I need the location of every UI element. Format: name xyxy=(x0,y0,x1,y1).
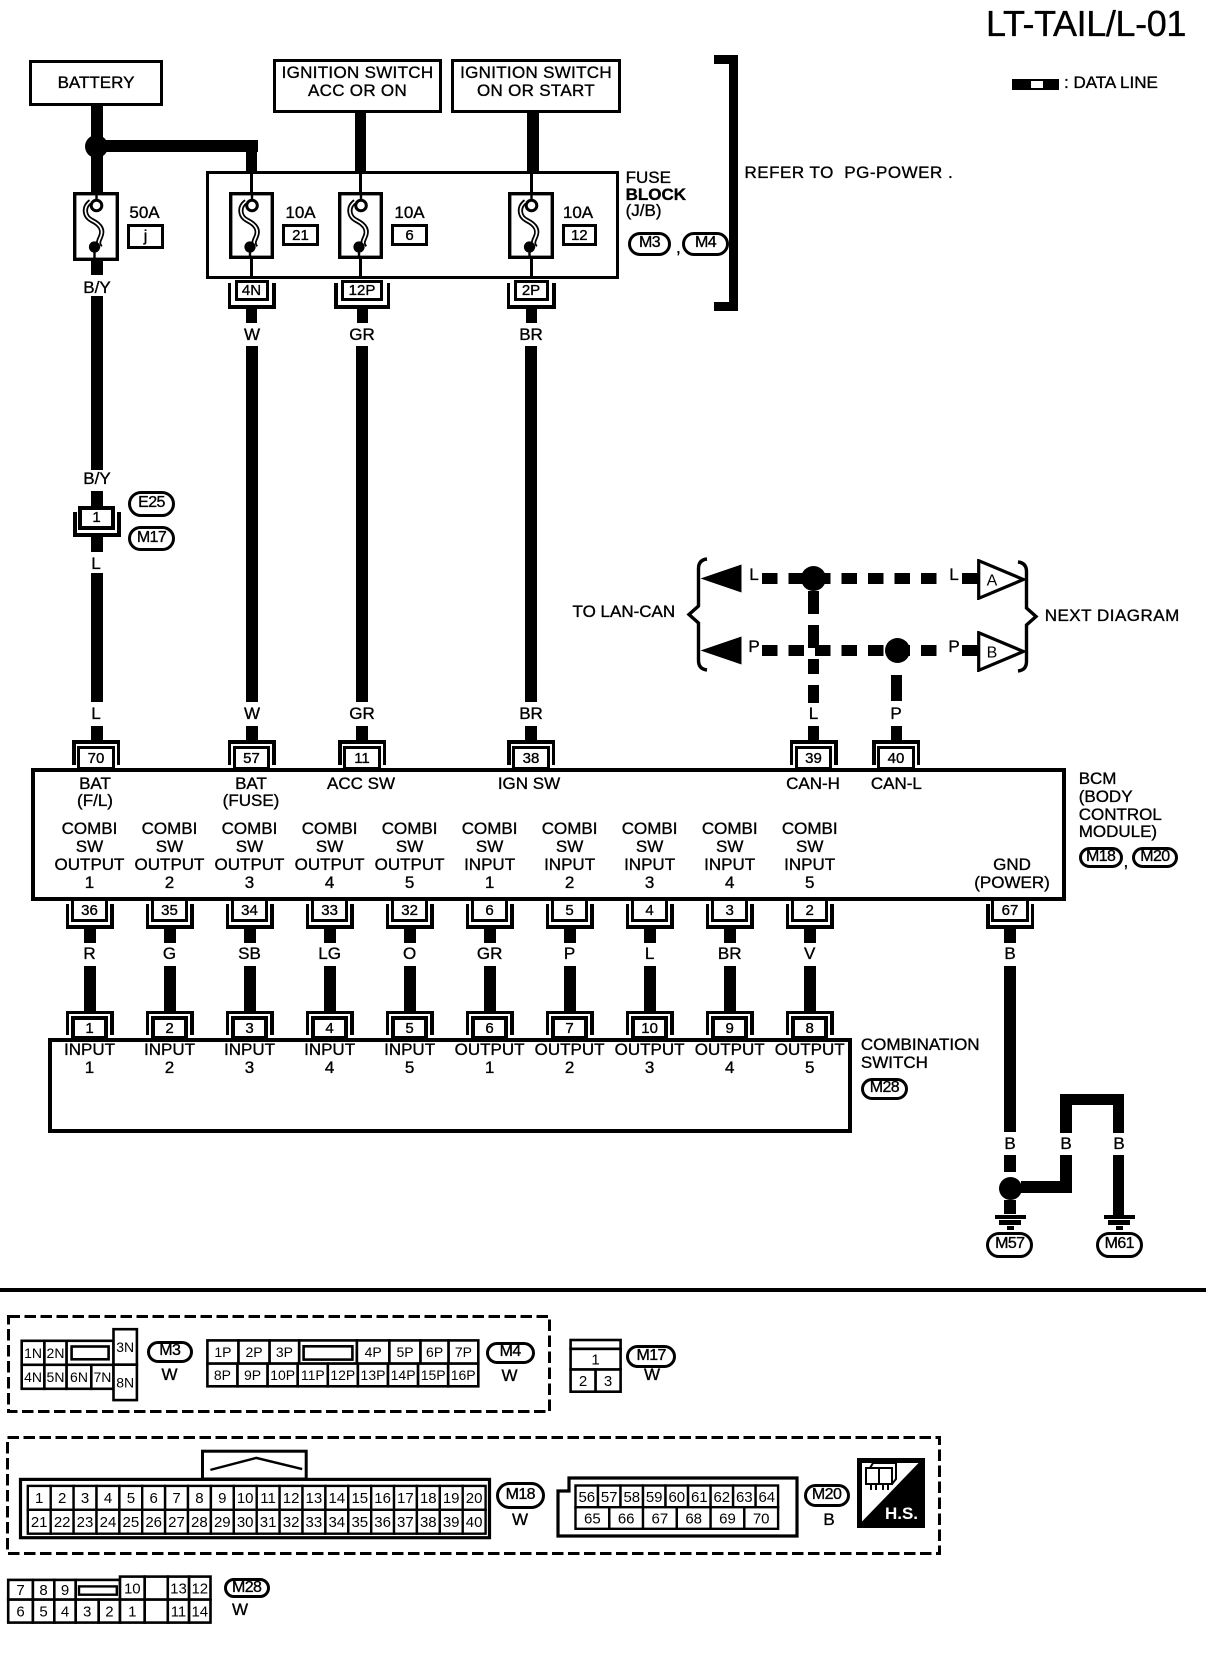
comb switch label INPUT 5 xyxy=(384,1041,435,1077)
wire top bar xyxy=(1060,1094,1124,1106)
svg-text:4: 4 xyxy=(104,1490,112,1507)
svg-text:26: 26 xyxy=(145,1514,162,1531)
ground M61 symbol xyxy=(1104,1215,1135,1219)
comb switch label OUTPUT 4 xyxy=(695,1041,765,1077)
wire stub below pin 67 xyxy=(1004,929,1016,943)
svg-text:H.S.: H.S. xyxy=(885,1504,918,1523)
lead fuse2 top xyxy=(359,174,362,193)
svg-text:34: 34 xyxy=(328,1514,345,1531)
ground oval M57 xyxy=(986,1232,1033,1258)
svg-text:A: A xyxy=(987,573,998,590)
wire stub below dot xyxy=(1004,1200,1016,1214)
svg-text:4P: 4P xyxy=(365,1344,382,1360)
wire W xyxy=(246,346,258,702)
comb switch label OUTPUT 2 xyxy=(535,1041,605,1077)
BCM pin 67 xyxy=(991,898,1028,922)
svg-text:12P: 12P xyxy=(330,1367,355,1383)
wire stub below pin 32 xyxy=(404,929,416,943)
wire L xyxy=(644,966,656,1011)
stub before triangle A xyxy=(962,573,978,584)
wire GR xyxy=(356,346,368,702)
title LT-TAIL/L-01 xyxy=(986,5,1186,43)
BCM pin 3 xyxy=(711,898,748,922)
fuse block oval M3 xyxy=(628,232,671,256)
svg-text:13: 13 xyxy=(306,1490,323,1507)
fuse 10A 6 xyxy=(338,192,383,259)
wire stub below 4N xyxy=(246,309,257,323)
svg-text:5P: 5P xyxy=(396,1344,413,1360)
label LG xyxy=(318,945,341,963)
oval M18 pinout xyxy=(496,1482,545,1509)
label L left xyxy=(749,566,758,584)
connector pinout M20 xyxy=(556,1476,799,1538)
BCM pin 11 xyxy=(338,740,386,744)
svg-text:36: 36 xyxy=(374,1514,391,1531)
label B below pin 67 xyxy=(1004,945,1015,963)
svg-text:6P: 6P xyxy=(426,1344,443,1360)
svg-text:9: 9 xyxy=(61,1582,69,1599)
label W under M18 xyxy=(512,1511,528,1529)
comb switch label INPUT 3 xyxy=(224,1041,275,1077)
wire stub below pin 33 xyxy=(324,929,336,943)
dashed box BCM connectors xyxy=(4,1434,945,1556)
lead fuse1 top xyxy=(250,174,253,193)
inline connector 1 E25/M17 xyxy=(78,506,115,530)
svg-text:32: 32 xyxy=(283,1514,300,1531)
wire junction to fuse block xyxy=(96,140,258,152)
combination switch box xyxy=(48,1038,852,1133)
pin label IGN SW xyxy=(498,775,560,793)
svg-text:56: 56 xyxy=(578,1489,595,1506)
svg-text:2P: 2P xyxy=(245,1344,262,1360)
connector 4N xyxy=(235,280,269,301)
wire stub below pin 4 xyxy=(644,929,656,943)
svg-text:11: 11 xyxy=(260,1490,276,1507)
wire stub below pin 2 xyxy=(804,929,816,943)
pin label COMBI SW INPUT 2 xyxy=(542,820,598,892)
wire left leg upper xyxy=(1060,1105,1072,1133)
svg-text:6N: 6N xyxy=(70,1369,88,1385)
triangle A next diagram xyxy=(977,559,1026,600)
svg-text:28: 28 xyxy=(191,1514,208,1531)
comb switch oval M28 xyxy=(861,1078,908,1100)
svg-text:59: 59 xyxy=(646,1489,663,1506)
BCM pin 4 xyxy=(631,898,668,922)
fuse 50A j xyxy=(73,192,119,261)
wire stub below fuse 50A xyxy=(91,261,103,275)
data line CAN-H vertical xyxy=(808,591,819,614)
junction dot CAN-P-row xyxy=(885,638,910,663)
pin label COMBI SW INPUT 5 xyxy=(782,820,838,892)
wire V xyxy=(804,966,816,1011)
label B right xyxy=(1113,1135,1124,1153)
BCM pin 39 xyxy=(790,740,838,744)
svg-text:66: 66 xyxy=(618,1510,635,1527)
wire stub above pin 11 xyxy=(356,726,368,740)
label 10A fuse1 xyxy=(285,204,315,222)
fuse id box 12 xyxy=(562,224,597,246)
svg-text:70: 70 xyxy=(753,1510,770,1527)
junction dot battery xyxy=(85,135,108,158)
wire right leg upper xyxy=(1113,1105,1125,1133)
brace right next diagram xyxy=(1016,560,1039,673)
wire acc to fuse block xyxy=(355,113,366,172)
ground M57 symbol xyxy=(995,1215,1026,1219)
BCM pin 38 xyxy=(507,740,555,744)
svg-text:69: 69 xyxy=(719,1510,736,1527)
label P xyxy=(564,945,575,963)
data line P row xyxy=(762,645,946,656)
svg-text:15P: 15P xyxy=(421,1367,446,1383)
svg-text:3: 3 xyxy=(81,1490,89,1507)
svg-text:1: 1 xyxy=(35,1490,43,1507)
label 10A fuse2 xyxy=(394,204,424,222)
label W under M28 xyxy=(232,1601,248,1619)
arrow left P row xyxy=(700,636,742,665)
svg-text:64: 64 xyxy=(758,1489,775,1506)
label refer to pg-power xyxy=(745,164,954,182)
label next diagram xyxy=(1045,607,1180,625)
BCM pin 32 xyxy=(391,898,428,922)
wire R xyxy=(84,966,96,1011)
BCM pin 2 xyxy=(791,898,828,922)
combination switch pin 9 xyxy=(706,1011,754,1015)
svg-text:23: 23 xyxy=(77,1514,94,1531)
bracket refer to pg-power xyxy=(729,55,738,311)
wire stub below 12P xyxy=(357,309,368,323)
svg-text:10P: 10P xyxy=(270,1367,295,1383)
stub above pin 40 xyxy=(891,726,902,740)
wire BR xyxy=(724,966,736,1011)
pin label COMBI SW OUTPUT 2 xyxy=(135,820,205,892)
label GR xyxy=(477,945,503,963)
wire stub below 2P xyxy=(526,309,537,323)
wire stub above pin 57 xyxy=(246,726,258,740)
fuse block label xyxy=(626,170,686,219)
svg-text:2: 2 xyxy=(579,1373,587,1390)
pin label BAT (F/L) xyxy=(77,775,113,809)
fuse 10A 21 xyxy=(229,192,274,259)
separator line xyxy=(0,1288,1206,1292)
wire stub below pin 34 xyxy=(244,929,256,943)
svg-text:3N: 3N xyxy=(116,1339,134,1355)
BCM pin 34 xyxy=(231,898,268,922)
BCM box xyxy=(31,768,1066,901)
svg-text:6: 6 xyxy=(150,1490,158,1507)
pin label COMBI SW OUTPUT 4 xyxy=(295,820,365,892)
label W above pin 57 xyxy=(244,705,260,723)
oval M20 pinout xyxy=(804,1484,850,1507)
svg-text:1: 1 xyxy=(591,1352,599,1369)
wire LG xyxy=(324,966,336,1011)
connector pinout M3 xyxy=(19,1326,140,1403)
svg-text:2: 2 xyxy=(105,1604,113,1621)
data line CAN-L vertical xyxy=(891,675,902,701)
svg-text:10: 10 xyxy=(124,1581,141,1598)
svg-text:25: 25 xyxy=(123,1514,140,1531)
svg-text:4N: 4N xyxy=(24,1369,42,1385)
label L xyxy=(645,945,654,963)
svg-text:3: 3 xyxy=(604,1373,612,1390)
svg-text:62: 62 xyxy=(713,1489,730,1506)
connector 2P xyxy=(514,280,549,301)
combination switch pin 5 xyxy=(386,1011,434,1015)
arrow left L row xyxy=(700,564,742,593)
svg-text:8: 8 xyxy=(195,1490,203,1507)
pin label COMBI SW OUTPUT 5 xyxy=(375,820,445,892)
label BR xyxy=(718,945,742,963)
svg-text:13P: 13P xyxy=(361,1367,386,1383)
svg-text:1: 1 xyxy=(128,1604,136,1621)
wire ign to fuse block xyxy=(527,113,539,172)
dashed box fuse block connectors xyxy=(6,1314,554,1415)
data line legend bar xyxy=(1012,79,1059,91)
connector pinout M28 xyxy=(3,1574,218,1627)
svg-text:B: B xyxy=(987,645,998,662)
lead fuse3 top xyxy=(530,174,533,193)
oval M3 pinout xyxy=(147,1341,193,1363)
wire right leg lower xyxy=(1113,1155,1125,1216)
lead fuse2 bottom xyxy=(359,258,362,277)
connector 12P xyxy=(341,280,383,301)
svg-text:6: 6 xyxy=(16,1604,24,1621)
svg-text:57: 57 xyxy=(601,1489,618,1506)
label B/Y upper xyxy=(83,279,110,297)
svg-text:60: 60 xyxy=(668,1489,685,1506)
wire SB xyxy=(244,966,256,1011)
BCM pin 5 xyxy=(551,898,588,922)
svg-text:68: 68 xyxy=(685,1510,702,1527)
svg-text:61: 61 xyxy=(691,1489,708,1506)
BCM oval M18 xyxy=(1079,847,1123,868)
wire stub below pin 35 xyxy=(164,929,176,943)
wire B/Y xyxy=(91,296,103,470)
wire BR xyxy=(525,346,537,702)
combination switch name xyxy=(861,1036,980,1072)
combination switch pin 2 xyxy=(146,1011,194,1015)
label BR above pin 38 xyxy=(519,705,543,723)
fuse id box j xyxy=(127,224,164,249)
svg-text:1P: 1P xyxy=(214,1344,231,1360)
svg-text:29: 29 xyxy=(214,1514,231,1531)
svg-text:14: 14 xyxy=(191,1604,208,1621)
lead fuse1 bottom xyxy=(250,258,253,277)
BCM pin 36 xyxy=(71,898,108,922)
lead fuse3 bottom xyxy=(530,258,533,277)
data line L row xyxy=(762,573,946,584)
wire P xyxy=(564,966,576,1011)
svg-text:38: 38 xyxy=(420,1514,437,1531)
combination switch pin 3 xyxy=(226,1011,274,1015)
svg-text:18: 18 xyxy=(420,1490,437,1507)
comb switch label INPUT 2 xyxy=(144,1041,195,1077)
connector pinout M4 xyxy=(205,1338,482,1389)
label GR above pin 11 xyxy=(349,705,375,723)
svg-text:2: 2 xyxy=(58,1490,66,1507)
svg-text:15: 15 xyxy=(351,1490,368,1507)
connector pinout M17 xyxy=(568,1338,623,1394)
label G xyxy=(163,945,176,963)
svg-text:21: 21 xyxy=(31,1514,48,1531)
fuse block J/B box xyxy=(206,171,619,279)
wire stub above pin 38 xyxy=(525,726,537,740)
connector pinout M18 xyxy=(17,1449,493,1540)
wire L xyxy=(91,573,103,702)
svg-text:14: 14 xyxy=(328,1490,345,1507)
svg-text:4: 4 xyxy=(61,1604,69,1621)
pin label COMBI SW INPUT 4 xyxy=(702,820,758,892)
svg-text:8: 8 xyxy=(39,1582,47,1599)
svg-text:9P: 9P xyxy=(244,1367,261,1383)
label V xyxy=(804,945,815,963)
comb switch label OUTPUT 3 xyxy=(615,1041,685,1077)
triangle B next diagram xyxy=(977,631,1026,672)
label B middle xyxy=(1060,1135,1071,1153)
label P left xyxy=(748,638,759,656)
label L right xyxy=(949,566,958,584)
combination switch pin 10 xyxy=(626,1011,674,1015)
label B under M20 xyxy=(823,1511,834,1529)
pin label COMBI SW INPUT 3 xyxy=(622,820,678,892)
ignition switch on or start xyxy=(451,59,621,113)
wire stub below pin 6 xyxy=(484,929,496,943)
comb switch label OUTPUT 5 xyxy=(775,1041,845,1077)
svg-text:8P: 8P xyxy=(214,1367,231,1383)
svg-text:24: 24 xyxy=(100,1514,117,1531)
fuse 10A 12 xyxy=(508,192,554,259)
wire stub above pin 70 xyxy=(91,726,103,740)
battery xyxy=(29,60,163,106)
pin label COMBI SW OUTPUT 3 xyxy=(215,820,285,892)
svg-text:31: 31 xyxy=(260,1514,277,1531)
svg-text:58: 58 xyxy=(623,1489,640,1506)
BCM pin 33 xyxy=(311,898,348,922)
wire left leg lower xyxy=(1060,1155,1072,1193)
svg-text:5: 5 xyxy=(39,1604,47,1621)
svg-text:3P: 3P xyxy=(276,1344,293,1360)
label L above pin 39 xyxy=(809,705,818,723)
label B/Y lower xyxy=(83,470,110,488)
svg-text:11: 11 xyxy=(171,1604,187,1621)
svg-text:40: 40 xyxy=(466,1514,483,1531)
comma between M3 M4 xyxy=(676,239,681,257)
wire stub below connector E25 xyxy=(91,537,103,552)
connector oval M17 xyxy=(128,526,175,552)
wire GR xyxy=(484,966,496,1011)
svg-text:14P: 14P xyxy=(391,1367,416,1383)
svg-text:7: 7 xyxy=(172,1490,180,1507)
svg-text:3: 3 xyxy=(83,1604,91,1621)
comb switch label OUTPUT 1 xyxy=(455,1041,525,1077)
svg-text:7P: 7P xyxy=(455,1344,472,1360)
svg-text:65: 65 xyxy=(584,1510,601,1527)
label P above pin 40 xyxy=(890,705,901,723)
wire battery to fuse 50A xyxy=(91,106,103,192)
svg-text:12: 12 xyxy=(283,1490,300,1507)
combination switch pin 6 xyxy=(466,1011,514,1015)
wire G xyxy=(164,966,176,1011)
svg-text:19: 19 xyxy=(443,1490,460,1507)
pin label GND (POWER) xyxy=(974,856,1050,892)
BCM pin 70 xyxy=(72,740,120,744)
label W upper xyxy=(244,326,260,344)
label 50A xyxy=(129,204,159,222)
label O xyxy=(403,945,416,963)
label SB xyxy=(238,945,261,963)
label P right xyxy=(948,638,959,656)
oval M4 pinout xyxy=(486,1342,535,1364)
oval M17 pinout xyxy=(626,1345,676,1368)
pin label BAT (FUSE) xyxy=(223,775,280,809)
svg-text:67: 67 xyxy=(652,1510,669,1527)
label B above dot xyxy=(1004,1135,1015,1153)
wire stub above connector E25 xyxy=(91,491,103,506)
wire stub below pin 5 xyxy=(564,929,576,943)
stub before triangle B xyxy=(962,645,978,656)
combination switch pin 7 xyxy=(546,1011,594,1015)
fuse block oval M4 xyxy=(682,232,729,256)
BCM pin 40 xyxy=(872,740,920,744)
BCM oval M20 xyxy=(1132,847,1178,868)
ground oval M61 xyxy=(1096,1232,1143,1258)
svg-text:16P: 16P xyxy=(451,1367,476,1383)
oval M28 pinout xyxy=(224,1578,270,1598)
label R xyxy=(83,945,95,963)
label L upper xyxy=(91,555,100,573)
label W under M3 xyxy=(161,1366,177,1384)
combination switch pin 4 xyxy=(306,1011,354,1015)
fuse id box 21 xyxy=(282,224,319,246)
wire stub below pin 36 xyxy=(84,929,96,943)
svg-text:7: 7 xyxy=(16,1582,24,1599)
svg-text:7N: 7N xyxy=(93,1369,111,1385)
svg-text:10: 10 xyxy=(237,1490,254,1507)
label 10A fuse3 xyxy=(563,204,593,222)
svg-text:16: 16 xyxy=(374,1490,391,1507)
BCM pin 57 xyxy=(228,740,276,744)
svg-text:39: 39 xyxy=(443,1514,460,1531)
ignition switch acc or on xyxy=(273,59,442,113)
wire stub above dot xyxy=(1004,1155,1016,1172)
comb switch label INPUT 4 xyxy=(304,1041,355,1077)
svg-text:11P: 11P xyxy=(301,1367,325,1383)
label W under M4 xyxy=(501,1367,517,1385)
brace left lan-can xyxy=(686,557,709,672)
svg-text:27: 27 xyxy=(168,1514,185,1531)
svg-text:8N: 8N xyxy=(116,1374,134,1390)
svg-text:37: 37 xyxy=(397,1514,414,1531)
svg-text:35: 35 xyxy=(351,1514,368,1531)
wire B xyxy=(1004,966,1016,1132)
wire horizontal from dot xyxy=(1021,1181,1072,1193)
svg-text:22: 22 xyxy=(54,1514,71,1531)
svg-text:2N: 2N xyxy=(47,1345,65,1361)
svg-text:33: 33 xyxy=(306,1514,323,1531)
comma between M18 M20 xyxy=(1124,853,1129,871)
stub above pin 39 xyxy=(808,726,819,740)
svg-text:17: 17 xyxy=(397,1490,414,1507)
label W under M17 xyxy=(644,1366,660,1384)
wire stub below pin 3 xyxy=(724,929,736,943)
pin label COMBI SW INPUT 1 xyxy=(462,820,518,892)
svg-text:5: 5 xyxy=(127,1490,135,1507)
label GR upper xyxy=(349,326,375,344)
svg-text:12: 12 xyxy=(191,1581,208,1598)
pin label ACC SW xyxy=(327,775,395,793)
BCM pin 35 xyxy=(151,898,188,922)
label L above pin 70 xyxy=(91,705,100,723)
BCM name label xyxy=(1079,770,1162,841)
